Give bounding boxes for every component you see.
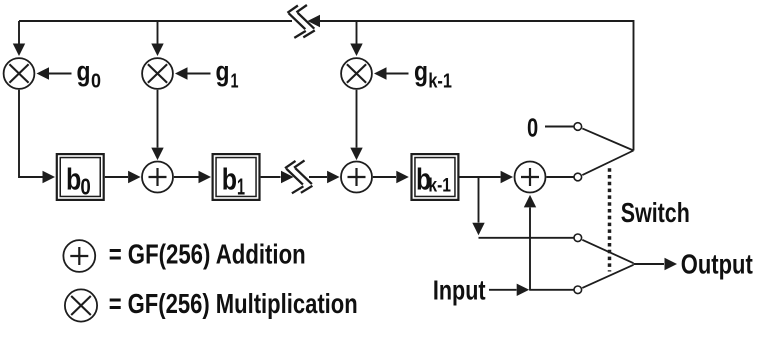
dotted switch coupling line <box>608 168 612 271</box>
svg-text:Input: Input <box>433 275 486 306</box>
label g0 <box>77 56 102 93</box>
wire: M1 output down and into register b0 <box>19 90 55 183</box>
arrowhead on feedback line pointing left into break <box>308 15 321 27</box>
svg-text:= GF(256) Multiplication: = GF(256) Multiplication <box>109 288 358 319</box>
switch arm: lower pole to contact C <box>582 240 633 263</box>
svg-text:= GF(256) Addition: = GF(256) Addition <box>109 239 306 270</box>
svg-text:1: 1 <box>231 71 239 93</box>
wire: output line <box>634 258 678 270</box>
break symbol on datapath <box>285 160 312 193</box>
multiplier M1 (gain g0) <box>4 58 35 89</box>
break symbol on feedback line <box>287 5 314 38</box>
wire: top feedback line left segment <box>19 20 292 22</box>
wire: M2 down into A1 <box>151 90 163 160</box>
svg-text:Output: Output <box>681 249 753 280</box>
contact D (lower throw, input path) <box>574 286 582 294</box>
svg-text:0: 0 <box>527 113 538 143</box>
legend multiplier symbol <box>65 289 97 321</box>
switch arm: upper pole to contact B <box>582 151 633 176</box>
wire: drop from feedback to multiplier M3 <box>350 21 362 56</box>
wire: gk-1 into M3 <box>374 67 409 79</box>
wire: top feedback line right segment <box>319 20 634 22</box>
multiplier M3 (gain gk-1) <box>341 58 372 89</box>
contact A (upper throw, zero) <box>574 123 582 131</box>
register b0 <box>57 154 104 200</box>
svg-text:k-1: k-1 <box>428 71 452 93</box>
wire: drop from feedback to multiplier M1 <box>13 21 25 56</box>
register bk-1 <box>412 154 459 200</box>
svg-text:0: 0 <box>80 173 90 199</box>
svg-text:g: g <box>77 56 91 87</box>
wire: datapath break to adder A2 <box>309 171 340 183</box>
wire: Input horizontal line <box>489 284 574 296</box>
legend adder symbol <box>63 240 95 272</box>
wire: branch from bk-1 output down to contact C <box>472 177 573 238</box>
wire: M3 down into A2 <box>350 90 362 160</box>
register b1 <box>213 154 260 200</box>
wire: b1 to datapath break <box>261 171 294 183</box>
contact C (lower throw, register path) <box>574 234 582 242</box>
svg-text:b: b <box>66 162 81 197</box>
multiplier M2 (gain g1) <box>142 58 173 89</box>
wire: A2 to register bk-1 <box>373 171 409 183</box>
svg-text:1: 1 <box>237 173 245 199</box>
contact B (upper throw, adder out) <box>574 173 582 181</box>
wire: A1 to register b1 <box>174 171 211 183</box>
switch arm: upper pole to contact A <box>582 128 633 150</box>
svg-text:g: g <box>414 56 428 87</box>
switch arm: lower pole to contact D <box>582 265 633 288</box>
wire: g1 into M2 <box>175 67 211 79</box>
wire: feedback right vertical down to switch pole <box>633 20 635 150</box>
svg-text:0: 0 <box>91 71 101 93</box>
svg-text:k-1: k-1 <box>428 176 451 197</box>
adder A2 <box>341 162 372 193</box>
adder A3 <box>515 162 546 193</box>
svg-text:g: g <box>216 56 230 87</box>
wire: zero to contact A <box>545 126 574 128</box>
svg-text:Switch: Switch <box>621 197 690 228</box>
svg-text:b: b <box>222 162 237 197</box>
wire: b0 to adder A1 <box>105 171 141 183</box>
adder A1 <box>142 162 173 193</box>
wire: input branch up into A3 <box>524 195 536 290</box>
wire: drop from feedback to multiplier M2 <box>151 21 163 56</box>
wire: bk-1 to adder A3 <box>460 171 514 183</box>
label g1 <box>216 56 239 93</box>
wire: g0 into M1 <box>37 67 72 79</box>
wire: A3 to contact B <box>546 176 573 178</box>
label gk-1 <box>414 56 452 93</box>
